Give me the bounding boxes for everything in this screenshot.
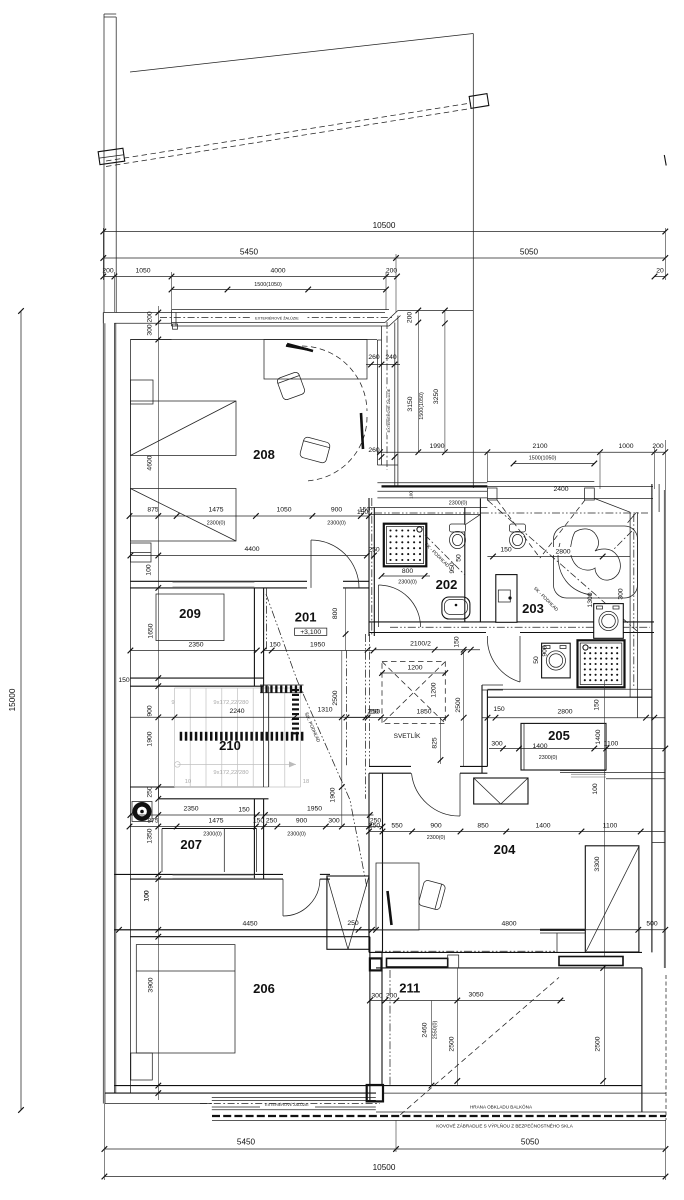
balcony right edge — [641, 968, 643, 1112]
insulation line bathrooms top — [374, 512, 648, 514]
bottom-left corner of site — [104, 1093, 106, 1103]
svg-text:10500: 10500 — [373, 1163, 396, 1172]
svg-text:1500(1050): 1500(1050) — [254, 282, 282, 288]
room 207 right wall — [253, 799, 255, 879]
svg-text:900: 900 — [430, 823, 442, 830]
svg-text:205: 205 — [548, 728, 570, 743]
svg-text:1850: 1850 — [416, 709, 431, 716]
svg-text:2300(0): 2300(0) — [398, 580, 417, 586]
small mark top right — [664, 155, 666, 166]
dim row 4400 — [130, 555, 367, 557]
svg-text:1350: 1350 — [147, 828, 154, 843]
svg-text:10: 10 — [185, 779, 191, 785]
site boundary wall (left) — [103, 14, 105, 313]
svg-text:250: 250 — [370, 818, 382, 825]
washing machine right 203 — [594, 604, 624, 639]
svg-text:5050: 5050 — [520, 248, 539, 257]
balcony bottom edge — [376, 1085, 642, 1087]
door 208-corridor with swing — [310, 540, 312, 588]
right wall detail line — [652, 842, 665, 844]
svg-text:1400: 1400 — [595, 729, 602, 744]
corner posts balcony wall — [370, 958, 382, 970]
svg-text:150: 150 — [500, 547, 512, 554]
svg-text:800: 800 — [332, 608, 339, 620]
wall south of 209 — [130, 677, 263, 679]
dimension row 200/1050/4000/200 — [103, 276, 397, 278]
svg-text:3250: 3250 — [433, 389, 440, 404]
wall y766-779 east part — [560, 770, 606, 772]
svg-text:201: 201 — [295, 610, 317, 625]
svg-text:1310: 1310 — [317, 707, 332, 714]
window swing dashes 203 — [497, 500, 540, 558]
svg-text:1475: 1475 — [208, 818, 223, 825]
hood block below wall — [474, 778, 528, 804]
extension lines top dims — [102, 228, 104, 280]
svg-text:200: 200 — [407, 312, 414, 324]
svg-text:150: 150 — [454, 636, 461, 648]
nightstand in 208 — [130, 380, 153, 404]
svg-text:200: 200 — [386, 268, 398, 275]
svg-text:2500: 2500 — [455, 697, 462, 712]
corner slash 203 top right — [628, 512, 637, 523]
chair 2 in 208 — [299, 436, 331, 463]
balcony diagonal (dashed) — [400, 977, 559, 1114]
bottom window with blinds (206) — [212, 1096, 376, 1098]
dim 2100/2 and 150 — [374, 649, 481, 651]
svg-text:207: 207 — [180, 837, 202, 852]
bathroom 202 left wall — [368, 498, 370, 636]
wall between 204 and balcony — [369, 951, 642, 953]
wall north of 206 (hall wall) — [114, 929, 376, 931]
svg-text:202: 202 — [436, 577, 458, 592]
dim row 875/1475/1050/900/150 in 208 — [130, 515, 369, 517]
chimney stub on left wall — [130, 543, 151, 562]
svg-text:3050: 3050 — [468, 992, 483, 999]
dimension row 1990/2100/1000/200 — [377, 451, 665, 453]
svg-text:250: 250 — [266, 818, 278, 825]
right window with blinds (208) — [376, 340, 378, 465]
svg-text:200: 200 — [102, 268, 114, 275]
svg-text:18: 18 — [303, 779, 309, 785]
svg-text:1400: 1400 — [535, 823, 550, 830]
dimension row 5450/5050 bottom — [104, 1148, 665, 1150]
tread section marks row 2 — [180, 732, 183, 741]
svg-text:10500: 10500 — [373, 221, 396, 230]
wardrobe sliding door swing (dashed) — [302, 346, 367, 411]
svg-text:15000: 15000 — [8, 688, 17, 711]
svg-text:2350: 2350 — [188, 642, 203, 649]
svg-text:1475: 1475 — [208, 507, 223, 514]
svg-text:300: 300 — [371, 992, 383, 999]
svg-text:2550(0): 2550(0) — [433, 1021, 439, 1040]
svg-text:150: 150 — [594, 699, 601, 711]
dim 2350 in 209 — [130, 650, 256, 652]
stair side wall lines — [263, 686, 265, 787]
svg-text:4400: 4400 — [244, 546, 259, 553]
dimension row 1500(1050) right — [514, 463, 595, 465]
svg-text:2100: 2100 — [532, 443, 547, 450]
balcony corner post bottom — [367, 1085, 383, 1101]
svg-text:3300: 3300 — [594, 856, 601, 871]
svg-text:203: 203 — [522, 601, 544, 616]
dim row 150/1950 corridor — [264, 650, 374, 652]
room 209 bed/closet — [156, 594, 224, 641]
svg-text:2240: 2240 — [229, 708, 244, 715]
svg-text:2500: 2500 — [595, 1036, 602, 1051]
balcony cladding edge line — [376, 1111, 666, 1113]
svg-text:300: 300 — [491, 741, 503, 748]
svg-text:5050: 5050 — [521, 1138, 540, 1147]
svg-text:20: 20 — [656, 268, 664, 275]
svg-text:260: 260 — [368, 354, 380, 361]
bed 1 in 208 — [130, 401, 236, 456]
svg-text:2300(0): 2300(0) — [539, 755, 558, 761]
svg-text:5450: 5450 — [240, 248, 259, 257]
closet 204 with diagonal — [585, 846, 639, 952]
closet 205 — [521, 723, 606, 770]
svg-text:2300(0): 2300(0) — [203, 832, 222, 838]
svg-text:9: 9 — [171, 700, 174, 706]
door 202 with swing — [378, 585, 380, 627]
svg-text:KOVOVÉ ZÁBRADLIE S VÝPLŇOU Z B: KOVOVÉ ZÁBRADLIE S VÝPLŇOU Z BEZPEČNOSTN… — [436, 1123, 574, 1129]
wall south of 208 — [130, 580, 307, 582]
svg-text:1400: 1400 — [532, 743, 547, 750]
level marker +3,100 — [295, 628, 327, 635]
svg-text:5450: 5450 — [237, 1138, 256, 1147]
sink 202 — [442, 597, 470, 619]
top-left wall corner — [103, 312, 171, 314]
right outer wall upper — [651, 484, 653, 952]
stair walk line with arrow (gray) — [175, 762, 181, 768]
bed 206 — [136, 945, 235, 1053]
svg-text:2800: 2800 — [555, 549, 570, 556]
terrain line (solid diagonal) — [130, 34, 473, 73]
svg-text:250: 250 — [367, 709, 379, 716]
room 209 right wall — [253, 588, 255, 686]
svg-text:1200: 1200 — [407, 665, 422, 672]
railing (dark dashed) — [212, 1115, 666, 1117]
wall above bathrooms (window lintel) — [377, 482, 487, 484]
svg-text:1100: 1100 — [603, 823, 618, 830]
svg-text:EXTERIÉROVÉ ŽALÚZIE: EXTERIÉROVÉ ŽALÚZIE — [255, 315, 299, 320]
svg-text:1200: 1200 — [430, 682, 437, 697]
svg-text:150: 150 — [493, 706, 505, 713]
dimension row 1500(1050) top — [172, 289, 387, 291]
inner face of top wall 208 — [130, 339, 377, 341]
balcony dims 300/200/3050 — [370, 1000, 565, 1002]
svg-text:EXTERIÉROVÉ ŽALÚZIE: EXTERIÉROVÉ ŽALÚZIE — [386, 388, 391, 432]
svg-text:1500(1050): 1500(1050) — [419, 392, 425, 420]
svg-text:9x172,22/280: 9x172,22/280 — [213, 770, 248, 776]
interior finish lines 203 — [629, 512, 631, 697]
dim verticals svetlik — [463, 652, 465, 766]
beam end block — [469, 94, 489, 109]
floor drain symbol — [132, 802, 152, 822]
door hall-204 with swing — [459, 773, 461, 816]
left outer wall — [102, 313, 104, 1104]
dim row 875/1475/150/250/900/300/250 — [130, 826, 383, 828]
svg-text:150: 150 — [357, 509, 369, 516]
svg-text:150: 150 — [118, 677, 130, 684]
svg-text:150: 150 — [269, 642, 281, 649]
svg-text:1950: 1950 — [310, 642, 325, 649]
svg-text:240: 240 — [385, 354, 397, 361]
dim 2800 through 203 — [487, 556, 630, 558]
svg-text:800: 800 — [402, 568, 414, 575]
svg-text:HRANA OBKLADU BALKÓNA: HRANA OBKLADU BALKÓNA — [470, 1104, 533, 1110]
dim row 250/550/900/850/1400/1100 — [369, 831, 665, 833]
svg-text:200: 200 — [386, 992, 398, 999]
stair dim 2240/1310 — [130, 716, 369, 718]
dim row 2350/150/1950 below stairs — [130, 814, 373, 816]
dim row 150/2800/150 below 203 — [482, 717, 665, 719]
svg-text:1950: 1950 — [307, 806, 322, 813]
svg-text:875: 875 — [147, 507, 159, 514]
left dimension chain line — [157, 306, 159, 1100]
svg-text:250: 250 — [147, 786, 154, 798]
skylight shaft (dashed box with X) — [382, 662, 445, 724]
dim verticals stairs — [341, 651, 343, 827]
svg-text:208: 208 — [253, 447, 275, 462]
svg-text:300: 300 — [147, 324, 154, 336]
closet in 207 — [162, 828, 257, 830]
desk lamp — [287, 344, 313, 351]
wall segment south of 204 (dark) — [540, 929, 585, 931]
site vertical line right of house — [472, 34, 474, 489]
desk lamp 204 — [388, 891, 392, 925]
svg-text:211: 211 — [399, 981, 420, 996]
svg-text:1050: 1050 — [135, 268, 150, 275]
desk in 208 — [264, 340, 367, 380]
stair treads (gray) — [174, 688, 176, 787]
low sill (gray) in wall — [173, 581, 255, 583]
svg-text:2460: 2460 — [422, 1022, 429, 1037]
wall south of bathrooms — [369, 621, 654, 623]
wall below shower 203 — [638, 688, 652, 690]
dash-dot boundary lines svetlik/stairs — [365, 634, 367, 799]
svg-text:EXTERIÉROVÉ ŽALÚZIE: EXTERIÉROVÉ ŽALÚZIE — [265, 1102, 309, 1107]
svg-text:1900: 1900 — [147, 731, 154, 746]
svg-text:4600: 4600 — [147, 455, 154, 470]
tread section marks row 1 — [261, 686, 263, 693]
top window with blinds (208) — [172, 309, 390, 311]
dimension row 10500 top — [103, 231, 665, 233]
svg-text:204: 204 — [494, 842, 516, 857]
step left of closet 204 — [556, 933, 558, 952]
bed 206 step — [131, 1053, 153, 1080]
svg-text:100: 100 — [592, 783, 599, 795]
svg-text:900: 900 — [331, 507, 343, 514]
balcony cladding edge (dash-dot) — [389, 970, 391, 1085]
door leaf marks in 208 — [286, 346, 308, 350]
bathtub 203 — [554, 526, 638, 598]
svg-text:2100/2: 2100/2 — [410, 641, 431, 648]
door hall-206 with swing — [282, 879, 284, 916]
dimension 15000 far left — [20, 311, 22, 1110]
bed 2 in 208 — [130, 489, 236, 542]
wall south of svetlik (hall to 204) — [369, 765, 411, 767]
left wall of 204 — [368, 773, 370, 952]
svg-text:2800: 2800 — [557, 709, 572, 716]
svg-text:825: 825 — [432, 737, 439, 749]
wall west of 205 — [481, 685, 483, 773]
svg-text:300: 300 — [618, 588, 625, 600]
washing machine bottom 203 — [542, 643, 571, 678]
svg-text:900: 900 — [296, 818, 308, 825]
svg-text:150: 150 — [238, 807, 250, 814]
svg-text:2300(0): 2300(0) — [327, 521, 346, 527]
svg-text:1000: 1000 — [618, 443, 633, 450]
chair 1 in 208 — [276, 371, 305, 400]
window bars to balcony — [387, 958, 448, 967]
window end detail — [173, 324, 178, 329]
svg-text:2400: 2400 — [553, 486, 568, 493]
svg-text:850: 850 — [477, 823, 489, 830]
wall below stairs — [130, 786, 268, 788]
svg-text:1900: 1900 — [330, 787, 337, 802]
dimension row 5450/5050 top — [103, 257, 665, 259]
wall south of 206 — [114, 1085, 376, 1087]
underground utility (dashed double diagonal) — [106, 103, 471, 161]
svg-text:209: 209 — [179, 606, 201, 621]
svg-text:3150: 3150 — [407, 396, 414, 411]
insulation line 202 left wall — [371, 498, 373, 636]
svg-text:4800: 4800 — [501, 921, 516, 928]
svg-text:50: 50 — [533, 656, 540, 664]
door 203 with swing — [519, 636, 521, 682]
sloped ceiling diagonal (dash-dot) — [266, 594, 367, 888]
svg-text:2500: 2500 — [449, 1036, 456, 1051]
room 206 right wall — [369, 937, 371, 1100]
svg-text:3900: 3900 — [148, 977, 155, 992]
svg-text:250: 250 — [347, 920, 359, 927]
svg-text:300: 300 — [328, 818, 340, 825]
svg-text:1050: 1050 — [276, 507, 291, 514]
dimension 20 top right — [655, 276, 666, 278]
svg-text:900: 900 — [542, 645, 549, 657]
svg-text:100: 100 — [144, 890, 151, 902]
svg-text:4450: 4450 — [242, 921, 257, 928]
svg-text:9x172,22/280: 9x172,22/280 — [213, 700, 248, 706]
svg-text:SVETLÍK: SVETLÍK — [394, 731, 421, 740]
svg-text:900: 900 — [147, 705, 154, 717]
wall south of 207 — [114, 873, 283, 875]
svg-text:2300(0): 2300(0) — [427, 835, 446, 841]
dim row 4450/250/4800/500 — [114, 929, 665, 931]
svg-text:2300(0): 2300(0) — [207, 521, 226, 527]
toilet 202 — [450, 524, 466, 532]
desk 204 — [376, 863, 419, 930]
svg-text:2500: 2500 — [332, 690, 339, 705]
shower 202 — [384, 524, 427, 567]
toilet 203 — [510, 524, 526, 532]
svg-text:260: 260 — [368, 447, 380, 454]
wall between 202 and 203 — [464, 508, 466, 622]
svg-text:2300(0): 2300(0) — [287, 832, 306, 838]
dim 1200 skylight — [380, 672, 446, 674]
svg-text:2350: 2350 — [183, 806, 198, 813]
sloped ceiling line 202 — [425, 535, 465, 575]
dimension row 10500 bottom — [104, 1176, 665, 1178]
svg-text:875: 875 — [147, 818, 159, 825]
dim 800 corridor — [345, 588, 347, 651]
svg-text:50: 50 — [456, 554, 463, 562]
tread section marks column — [292, 689, 299, 691]
insulation line right wall — [633, 514, 635, 688]
retaining beam on wall — [98, 148, 125, 164]
svg-text:210: 210 — [219, 738, 241, 753]
svg-text:500: 500 — [646, 921, 658, 928]
svg-text:1500(1050): 1500(1050) — [529, 456, 557, 462]
svg-text:2300(0): 2300(0) — [449, 501, 468, 507]
svg-text:100: 100 — [146, 564, 153, 576]
svg-text:206: 206 — [253, 981, 275, 996]
svg-text:+3,100: +3,100 — [300, 629, 321, 636]
window 203 top — [487, 481, 594, 483]
chimney block hall/206 — [327, 876, 369, 949]
corner chamfer top right of 208 — [385, 311, 398, 323]
svg-text:550: 550 — [391, 823, 403, 830]
vanity 203 — [496, 575, 517, 623]
svg-text:1650: 1650 — [148, 623, 155, 638]
svg-text:4000: 4000 — [270, 268, 285, 275]
shower 203 — [578, 640, 625, 687]
dim line closet 205 — [489, 748, 665, 750]
svg-text:1100: 1100 — [604, 741, 619, 748]
svg-text:1990: 1990 — [429, 443, 444, 450]
svg-text:1300: 1300 — [587, 592, 594, 607]
dim chain right of 208: 200/3150/3250 — [417, 311, 419, 453]
dim 250/1850 skylight — [347, 717, 447, 719]
corridor left boundary (dashed) — [265, 588, 267, 651]
chair 204 — [418, 880, 446, 911]
balcony vertical dims — [456, 968, 458, 1086]
